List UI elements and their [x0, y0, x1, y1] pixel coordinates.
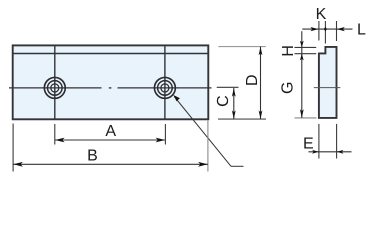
- svg-text:A: A: [105, 123, 116, 140]
- H top extension line: [295, 46, 317, 48]
- H step extension line: [295, 53, 317, 55]
- dimension K and L shared line: [302, 27, 352, 32]
- dimension D: [259, 47, 263, 120]
- svg-text:D: D: [244, 74, 261, 86]
- B right extension line: [207, 121, 209, 172]
- svg-text:H: H: [280, 45, 297, 57]
- L right extension line: [336, 21, 338, 41]
- dimension B: [13, 162, 208, 167]
- B left extension line: [12, 124, 14, 172]
- centerline tick for C: [217, 86, 239, 88]
- E left extension line: [318, 124, 320, 159]
- leader line to right hole: [173, 95, 244, 167]
- right hole vertical centerline: [164, 45, 166, 119]
- dimension C: [232, 88, 236, 119]
- horizontal centerline dash-dot: [9, 87, 212, 89]
- jaw plate front view body fill: [13, 45, 209, 119]
- front view outline: [13, 45, 209, 119]
- svg-text:C: C: [215, 95, 232, 107]
- right counterbored hole: [154, 77, 175, 98]
- dimension A: [55, 138, 166, 143]
- left hole vertical centerline: [54, 45, 56, 119]
- G bottom extension line: [295, 117, 317, 119]
- C D bottom extension line: [218, 118, 266, 120]
- K left extension line: [318, 21, 320, 41]
- front view step line: [13, 53, 209, 55]
- svg-text:K: K: [316, 6, 327, 23]
- dimension E: [309, 150, 352, 154]
- left counterbored hole: [44, 77, 65, 98]
- K step extension line: [324, 21, 326, 44]
- svg-text:L: L: [357, 21, 366, 38]
- E right extension line: [336, 124, 338, 159]
- D top extension line: [218, 46, 265, 48]
- svg-text:E: E: [303, 135, 314, 152]
- dimension H and G shared vertical line: [300, 31, 304, 118]
- svg-text:G: G: [279, 82, 296, 94]
- side view centerline: [314, 87, 341, 89]
- svg-text:B: B: [87, 147, 98, 164]
- A right extension line: [164, 124, 166, 145]
- A left extension line: [54, 124, 56, 145]
- side view body: [319, 47, 337, 118]
